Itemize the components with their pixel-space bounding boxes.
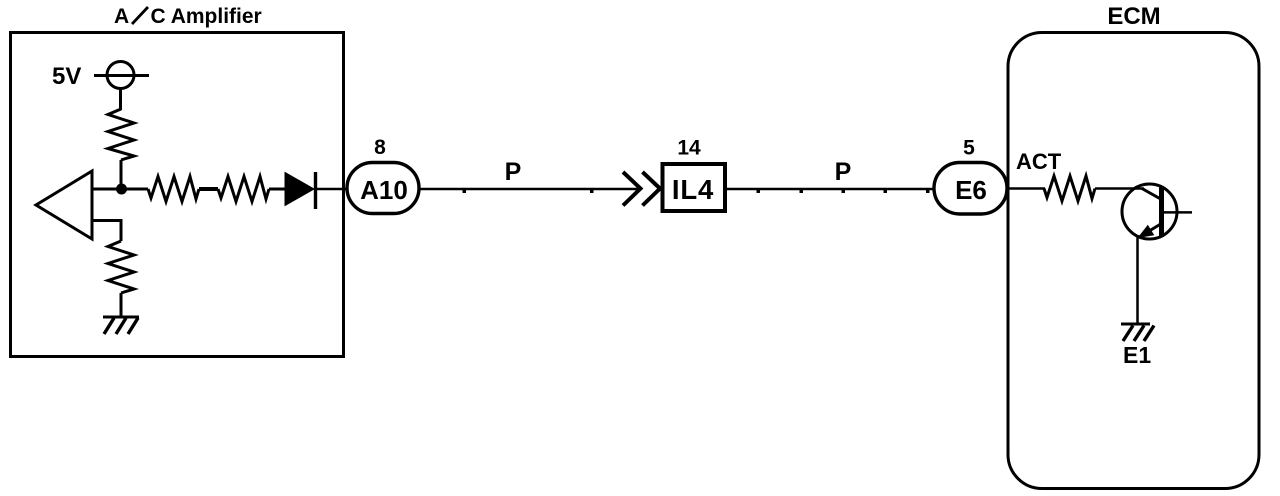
svg-text:A: A	[114, 5, 129, 28]
ground (A/C amplifier)	[103, 317, 139, 334]
ground E1 (ECM)	[1121, 324, 1154, 341]
svg-text:A10: A10	[360, 175, 408, 205]
connector chevron 1	[623, 172, 641, 206]
resistor R1 (vertical)	[108, 109, 134, 160]
svg-text:E6: E6	[955, 175, 987, 205]
5V supply circle	[107, 62, 134, 89]
wire R2 to ground	[120, 293, 123, 317]
svg-text:ACT: ACT	[1016, 149, 1062, 174]
wire through 5V circle	[94, 74, 149, 77]
node junction dot	[116, 184, 127, 195]
svg-text:5V: 5V	[52, 63, 81, 90]
resistor R3 (horizontal)	[148, 177, 199, 202]
emitter wire to ground	[1136, 238, 1139, 325]
wire tick marks	[463, 190, 467, 193]
wire triangle lower tap	[92, 221, 121, 242]
svg-text:P: P	[835, 158, 852, 186]
ECM box	[1008, 33, 1259, 489]
wire R3 to R4	[199, 187, 218, 191]
wire R4 to diode	[269, 188, 286, 191]
connector chevron 2	[643, 172, 661, 206]
svg-text:E1: E1	[1123, 342, 1151, 368]
wire 5V circle to resistor R1	[119, 89, 122, 111]
svg-text:8: 8	[374, 136, 386, 159]
resistor R4 (horizontal)	[218, 177, 269, 202]
op-amp comparator triangle	[36, 171, 92, 239]
junction block IL4	[663, 164, 726, 211]
svg-text:5: 5	[963, 137, 975, 160]
resistor R2 (vertical)	[108, 241, 134, 293]
svg-text:IL4: IL4	[672, 174, 714, 205]
svg-text:ECM: ECM	[1107, 3, 1160, 30]
transistor Q1	[1122, 184, 1192, 239]
wire IL4 to E6	[727, 188, 935, 191]
wire triangle output to node	[92, 188, 148, 191]
connector A10	[347, 163, 419, 214]
wire R5 to transistor	[1095, 187, 1144, 190]
wire R1 to node	[120, 160, 123, 189]
svg-text:14: 14	[677, 137, 701, 160]
A/C Amplifier box	[11, 33, 344, 357]
connector E6	[934, 163, 1007, 215]
A/C Amplifier label	[114, 5, 262, 28]
diode D1	[285, 172, 316, 209]
wire diode to A10	[317, 188, 348, 191]
svg-text:P: P	[505, 158, 522, 186]
wire E6 to R5	[1007, 187, 1045, 190]
resistor R5 (horizontal)	[1044, 176, 1095, 201]
svg-text:C Amplifier: C Amplifier	[151, 5, 262, 28]
wire A10 to chevrons	[419, 188, 640, 191]
